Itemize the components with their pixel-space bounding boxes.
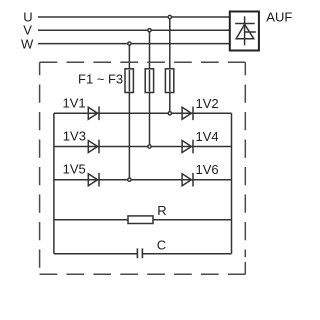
junction dot phase W xyxy=(128,42,131,45)
junction dot row2 xyxy=(148,145,151,148)
wire through fuse F1 xyxy=(128,70,130,92)
wire drop V to row2 xyxy=(149,30,151,146)
resistor R body xyxy=(128,216,153,224)
wire drop W to row3 xyxy=(128,44,130,180)
wire left bus xyxy=(53,113,55,253)
thyristor symbol inside box xyxy=(235,16,256,45)
wire through fuse F3 xyxy=(169,70,171,92)
wire phase W xyxy=(38,43,230,45)
capacitor C plates xyxy=(137,248,142,258)
dashed enclosure top edge xyxy=(40,61,246,63)
wire bridge row3 xyxy=(54,179,232,181)
diode 1V4 xyxy=(182,140,193,154)
wire right bus xyxy=(231,113,233,253)
diode 1V1 xyxy=(88,107,99,121)
svg-text:R: R xyxy=(157,203,166,218)
svg-text:1V1: 1V1 xyxy=(63,96,86,111)
fuse F2 xyxy=(145,69,153,93)
svg-text:1V4: 1V4 xyxy=(196,129,219,144)
wire through fuse F2 xyxy=(149,70,151,92)
diode 1V5 xyxy=(88,173,99,187)
junction dot phase U xyxy=(168,15,171,18)
wire bridge row1 xyxy=(54,112,232,114)
junction dot phase V xyxy=(148,29,151,32)
wire R row xyxy=(54,219,232,221)
svg-text:1V6: 1V6 xyxy=(196,162,219,177)
dashed enclosure right edge xyxy=(244,62,246,257)
wire phase V xyxy=(38,29,230,31)
svg-text:W: W xyxy=(21,37,34,52)
svg-text:V: V xyxy=(23,23,32,38)
diode 1V2 xyxy=(182,107,193,121)
svg-text:1V3: 1V3 xyxy=(63,128,86,143)
dashed enclosure bottom edge xyxy=(40,273,246,275)
svg-text:F1 ~ F3: F1 ~ F3 xyxy=(78,72,123,87)
wire phase U xyxy=(38,16,230,18)
converter unit box (AUF actuator) xyxy=(230,12,259,51)
dashed enclosure left edge xyxy=(39,62,41,274)
dashed enclosure bottom-right corner stub xyxy=(244,262,246,274)
junction dot row1 xyxy=(168,112,171,115)
svg-text:1V2: 1V2 xyxy=(196,96,219,111)
fuse F3 xyxy=(165,69,173,93)
diode 1V3 xyxy=(88,140,99,154)
fuse F1 xyxy=(125,69,133,93)
wire C row right xyxy=(142,253,231,255)
svg-text:1V5: 1V5 xyxy=(63,162,86,177)
wire bridge row2 xyxy=(54,146,232,148)
svg-text:C: C xyxy=(157,238,166,253)
junction dot row3 xyxy=(128,178,131,181)
svg-text:AUF: AUF xyxy=(266,9,292,24)
wire drop U to row1 xyxy=(169,17,171,113)
wire C row left xyxy=(54,253,137,255)
diode 1V6 xyxy=(182,173,193,187)
